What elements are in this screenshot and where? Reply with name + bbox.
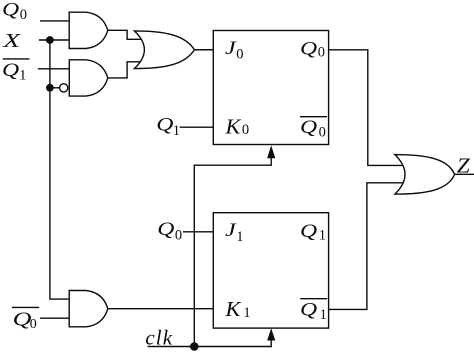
input label Q0 — [2, 0, 27, 23]
svg-text:1: 1 — [173, 123, 180, 139]
svg-text:Q: Q — [300, 220, 318, 241]
svg-text:1: 1 — [243, 305, 250, 321]
wire Q0 to J1 — [183, 231, 213, 233]
input label Q1-bar — [2, 59, 30, 84]
svg-text:1: 1 — [236, 229, 243, 245]
pin label J1 — [225, 219, 244, 244]
svg-text:0: 0 — [319, 124, 326, 140]
svg-text:0: 0 — [242, 122, 249, 138]
wire Q0 to AND G1 input A — [40, 20, 70, 22]
OR gate G4 — [134, 31, 194, 69]
svg-text:1: 1 — [319, 227, 326, 243]
svg-text:K: K — [224, 297, 241, 320]
svg-text:Q: Q — [300, 299, 318, 320]
svg-text:Q: Q — [156, 114, 174, 135]
svg-text:0: 0 — [30, 317, 37, 332]
wire Q1-bar to AND G2 input A — [38, 68, 70, 70]
clock arrowhead on U1 — [267, 145, 275, 158]
svg-text:1: 1 — [19, 68, 26, 84]
wire AND G3 output to K1 — [108, 308, 214, 310]
AND gate G3 — [69, 291, 108, 327]
wire tap to inverter bubble — [50, 87, 60, 89]
svg-text:Q: Q — [157, 218, 175, 239]
pin label K1 — [224, 297, 250, 321]
svg-text:Q: Q — [300, 116, 318, 137]
wire Q0-bar to AND G3 input B — [40, 317, 70, 319]
svg-text:0: 0 — [236, 46, 243, 62]
inverter bubble on AND G2 input B — [60, 84, 68, 92]
wire OR G4 output to J0 — [194, 49, 213, 51]
wire clk horizontal — [148, 346, 272, 348]
wire clk branch to U1 clock arrow — [194, 158, 271, 347]
svg-text:Z: Z — [457, 154, 471, 178]
pin label K0 — [224, 115, 249, 138]
wire U2 Q1-bar output to OR G5 input B — [329, 183, 404, 310]
wire X to AND G1 input B — [39, 39, 70, 41]
wire AND G2 output step up to OR G4 input B — [108, 62, 143, 78]
junction dot at inverter tap — [46, 84, 54, 92]
wire Q1 to K0 — [180, 126, 214, 128]
pin label Q1 (U2 true output) — [300, 220, 326, 243]
svg-text:Q: Q — [2, 59, 20, 80]
pin label Q1-bar (U2 inverted output) — [300, 299, 327, 323]
pin label Q0-bar (U1 inverted output) — [300, 116, 327, 140]
wire AND G1 output step down to OR G4 input A — [108, 30, 143, 39]
input label X — [2, 30, 21, 52]
flip-flop U2 box — [213, 213, 328, 328]
clock arrowhead on U2 — [267, 328, 275, 340]
svg-text:0: 0 — [20, 7, 27, 23]
output label Z — [457, 154, 471, 178]
svg-text:Q: Q — [13, 308, 32, 330]
svg-text:1: 1 — [320, 307, 327, 323]
pin label Q0 (U1 true output) — [300, 38, 325, 61]
svg-text:0: 0 — [318, 45, 325, 61]
junction dot on X wire — [46, 36, 54, 44]
input label Q0 (to J1) — [157, 218, 182, 243]
input label Q1 (to K0) — [156, 114, 180, 139]
svg-text:0: 0 — [175, 228, 182, 244]
AND gate G1 — [69, 12, 108, 48]
flip-flop U1 box — [213, 31, 328, 145]
input label Q0-bar (to G3 input B) — [12, 307, 39, 332]
wire vertical X bus down to AND G3 input A — [50, 40, 70, 299]
svg-text:K: K — [224, 115, 241, 138]
svg-text:Q: Q — [2, 0, 20, 20]
pin label J0 — [225, 37, 244, 62]
wire U1 Q0 output to OR G5 input A — [329, 50, 404, 166]
wire OR G5 output Z — [455, 173, 474, 175]
svg-text:Q: Q — [300, 38, 318, 59]
wire clk up to U2 clock arrow — [270, 340, 272, 347]
junction dot on clk — [190, 342, 199, 351]
OR gate G5 — [395, 155, 455, 195]
AND gate G2 — [69, 60, 108, 96]
svg-text:X: X — [2, 30, 21, 52]
